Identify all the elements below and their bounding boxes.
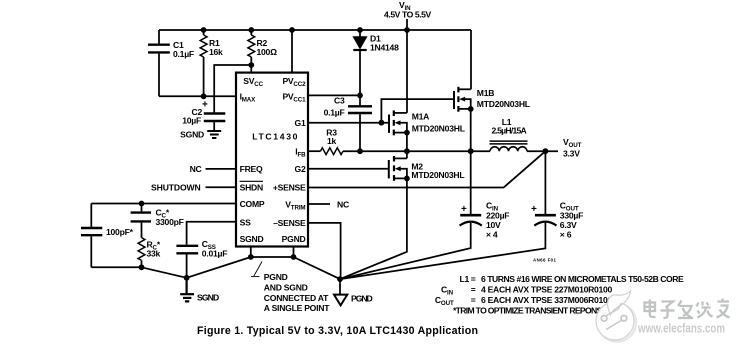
junction R1-IMAX — [201, 93, 207, 99]
value CIN label — [461, 201, 509, 240]
svg-text:SGND: SGND — [240, 234, 264, 244]
svg-text:LTC1430: LTC1430 — [252, 132, 297, 142]
svg-text:16k: 16k — [209, 47, 223, 57]
junction PVCC1-D1-C3 — [357, 93, 363, 99]
svg-text:+: + — [461, 204, 467, 215]
junction rail-D1 — [357, 27, 363, 33]
svg-text:10µF: 10µF — [182, 116, 201, 126]
svg-text:CONNECTED AT: CONNECTED AT — [264, 293, 329, 303]
capacitor C1 — [148, 30, 170, 96]
svg-text:SHUTDOWN: SHUTDOWN — [151, 183, 201, 193]
wire 100pF bottom to RC — [91, 266, 141, 268]
svg-text:PVCC1: PVCC1 — [282, 92, 306, 104]
svg-text:6 TURNS #16 WIRE ON MICROMETAL: 6 TURNS #16 WIRE ON MICROMETALS T50-52B … — [481, 274, 684, 284]
junction RC bottom — [139, 264, 145, 270]
value C2 label — [180, 100, 208, 140]
wire switch node — [343, 150, 490, 152]
pin labels U1 left — [240, 76, 265, 244]
annotation leader line — [251, 262, 262, 277]
svg-text:SGND: SGND — [180, 130, 204, 140]
svg-text:33k: 33k — [147, 249, 161, 259]
wire SVCC node to C2 — [214, 65, 251, 113]
svg-text:SVCC: SVCC — [243, 76, 263, 88]
svg-text:PVCC2: PVCC2 — [282, 76, 306, 88]
junction M1B-switch node — [468, 148, 474, 154]
wire G2 — [308, 168, 389, 170]
note CIN — [441, 285, 612, 297]
wire PGND rail diagonal — [294, 257, 341, 279]
svg-text:4.5V TO 5.5V: 4.5V TO 5.5V — [384, 9, 432, 19]
svg-text:A SINGLE POINT: A SINGLE POINT — [264, 303, 330, 313]
svg-text:VTRIM: VTRIM — [285, 200, 305, 212]
svg-text:SS: SS — [240, 218, 251, 228]
wire PGND pin drop — [293, 247, 295, 258]
junction rail-PVCC2 — [289, 27, 295, 33]
wire IFB to R3 — [308, 150, 320, 152]
wire M1B source to switch node and CIN — [470, 109, 472, 215]
svg-text:+: + — [531, 204, 537, 215]
svg-text:COMP: COMP — [240, 199, 265, 209]
svg-text:–SENSE: –SENSE — [273, 218, 306, 228]
svg-text:G1: G1 — [295, 118, 306, 128]
svg-text:AND SGND: AND SGND — [264, 282, 308, 292]
svg-text:C3: C3 — [334, 96, 345, 106]
node VIN label — [384, 0, 432, 19]
wire SGND pin drop — [250, 247, 252, 258]
wire G1 — [308, 122, 389, 124]
wire PVCC1 to D1 node — [308, 94, 360, 96]
svg-text:Figure 1. Typical 5V to 3.3V,: Figure 1. Typical 5V to 3.3V, 10A LTC143… — [197, 325, 478, 337]
svg-text:100pF*: 100pF* — [106, 227, 134, 237]
note COUT — [435, 295, 613, 307]
svg-text:NC: NC — [337, 200, 349, 210]
resistor R1 — [200, 30, 207, 96]
svg-text:www.elecfans.com: www.elecfans.com — [637, 321, 725, 336]
capacitor COUT — [534, 215, 556, 225]
svg-text:PGND: PGND — [351, 294, 373, 304]
wire FREQ NC — [206, 168, 237, 170]
svg-text:0.01µF: 0.01µF — [202, 249, 227, 259]
svg-text:PGND: PGND — [264, 272, 288, 282]
transistor M2 — [389, 156, 407, 181]
svg-text:FREQ: FREQ — [240, 164, 263, 174]
resistor R2 — [248, 30, 255, 73]
resistor R3 — [320, 148, 343, 155]
wire PVCC2 drop — [291, 30, 293, 73]
watermark chinese text 电子发烧友 — [645, 299, 730, 319]
watermark logo circle — [596, 291, 636, 342]
annotation PGND/SGND note — [264, 272, 330, 313]
svg-text:G2: G2 — [295, 164, 306, 174]
svg-text:CIN: CIN — [441, 285, 454, 297]
svg-text:AN66 F01: AN66 F01 — [533, 258, 557, 263]
node VOUT junction — [543, 148, 549, 154]
svg-text:4 EACH AVX TPSE 227M010R0100: 4 EACH AVX TPSE 227M010R0100 — [481, 285, 612, 295]
svg-text:0.1µF: 0.1µF — [173, 49, 194, 59]
svg-text:NC: NC — [190, 164, 202, 174]
svg-text:*TRIM TO OPTIMIZE TRANSIENT RE: *TRIM TO OPTIMIZE TRANSIENT REPONSE — [453, 305, 608, 315]
junction PGND pin — [291, 254, 297, 260]
capacitor CSS — [176, 246, 198, 278]
svg-text:PGND: PGND — [282, 234, 306, 244]
wire +SENSE — [308, 151, 545, 187]
wire G1 branch to M1B gate — [381, 99, 454, 123]
wire CIN bottom to PGND point — [340, 222, 471, 279]
capacitor C2 — [204, 114, 226, 132]
wire L1 to VOUT — [527, 150, 558, 152]
svg-text:2.5µH/15A: 2.5µH/15A — [492, 126, 527, 136]
svg-text:3300pF: 3300pF — [156, 217, 184, 227]
wire M2 source to PGND point — [340, 178, 407, 279]
junction M1A-M2-switch node — [404, 148, 410, 154]
svg-text:M1B: M1B — [477, 88, 494, 98]
svg-text:MTD20N03HL: MTD20N03HL — [411, 170, 464, 180]
op-amp-ic U1 LTC1430 box — [236, 73, 308, 247]
junction G1 branch — [379, 120, 385, 126]
svg-text:0.1µF: 0.1µF — [324, 108, 345, 118]
svg-text:=: = — [471, 285, 476, 295]
svg-text:1N4148: 1N4148 — [370, 43, 399, 53]
svg-text:=: = — [471, 274, 476, 284]
wire COUT bottom to PGND point — [340, 222, 545, 279]
ground PGND triangle — [334, 279, 347, 305]
svg-text:SHDN: SHDN — [240, 183, 263, 193]
junction C3-switch node — [357, 148, 363, 154]
note L1 — [460, 274, 685, 284]
wire VTRIM NC — [308, 203, 330, 205]
wire M1B drain from rail corner — [470, 30, 472, 89]
ground SGND at C2 — [207, 131, 221, 138]
svg-text:330µF: 330µF — [560, 210, 583, 220]
svg-text:IMAX: IMAX — [240, 92, 257, 104]
wire M2 drain to switch node — [406, 151, 408, 158]
wire SS to CSS — [187, 222, 236, 245]
wire VOUT down to COUT — [544, 151, 546, 215]
svg-text:+: + — [202, 100, 208, 111]
junction SGND pin — [248, 254, 254, 260]
wire -SENSE — [308, 223, 341, 279]
junction COMP-CC — [139, 201, 145, 207]
svg-text:MTD20N03HL: MTD20N03HL — [412, 124, 465, 134]
svg-text:MTD20N03HL: MTD20N03HL — [477, 99, 530, 109]
junction SVCC node — [248, 62, 254, 68]
junction rail-R1 — [201, 27, 207, 33]
wire SHDN shutdown — [206, 186, 237, 188]
capacitor C3 — [348, 95, 372, 151]
junction SGND point — [184, 275, 190, 281]
capacitor CIN — [460, 215, 482, 225]
junction rail-VIN — [404, 27, 410, 33]
wire RC bottom diagonal to SGND point — [142, 267, 187, 278]
wire IMAX (C1/R1 bottom to pin) — [159, 95, 236, 97]
wire IC bottom rail — [251, 256, 294, 258]
junction rail-R2 — [248, 27, 254, 33]
capacitor 100pF — [81, 204, 102, 268]
svg-text:220µF: 220µF — [486, 210, 509, 220]
resistor RC — [138, 238, 145, 268]
svg-text:× 4: × 4 — [486, 229, 498, 239]
svg-text:L1: L1 — [460, 274, 470, 284]
transistor M1A — [389, 110, 407, 135]
wire M1A source to switch node — [406, 133, 408, 152]
svg-text:+SENSE: +SENSE — [273, 183, 306, 193]
svg-text:IFB: IFB — [295, 147, 306, 159]
svg-text:M1A: M1A — [412, 112, 429, 122]
svg-text:1k: 1k — [327, 136, 337, 146]
junction PGND point — [337, 276, 343, 282]
diode D1 — [353, 30, 366, 95]
wire SGND rail diagonal — [187, 257, 251, 278]
wire M1A drain from rail — [406, 30, 408, 113]
junction M1A source — [404, 130, 410, 136]
svg-text:× 6: × 6 — [560, 229, 572, 239]
ground SGND symbol — [180, 278, 194, 302]
value COUT label — [531, 201, 583, 240]
junction M2 source — [404, 176, 410, 182]
svg-text:100Ω: 100Ω — [257, 47, 278, 57]
wire VIN stub — [406, 19, 408, 30]
transistor M1B — [454, 87, 471, 112]
svg-text:SGND: SGND — [197, 293, 219, 303]
wire VIN top rail — [159, 29, 471, 31]
capacitor CC — [131, 204, 151, 238]
junction M1B source — [468, 106, 474, 112]
wire COMP — [91, 203, 236, 205]
svg-text:3.3V: 3.3V — [563, 149, 580, 159]
pin labels U1 right — [273, 76, 306, 244]
svg-text:VOUT: VOUT — [563, 137, 582, 149]
svg-text:6 EACH AVX TPSE 337M006R0100: 6 EACH AVX TPSE 337M006R0100 — [481, 295, 612, 305]
svg-text:=: = — [471, 295, 476, 305]
inductor L1 — [490, 141, 528, 151]
svg-text:COUT: COUT — [435, 295, 454, 307]
